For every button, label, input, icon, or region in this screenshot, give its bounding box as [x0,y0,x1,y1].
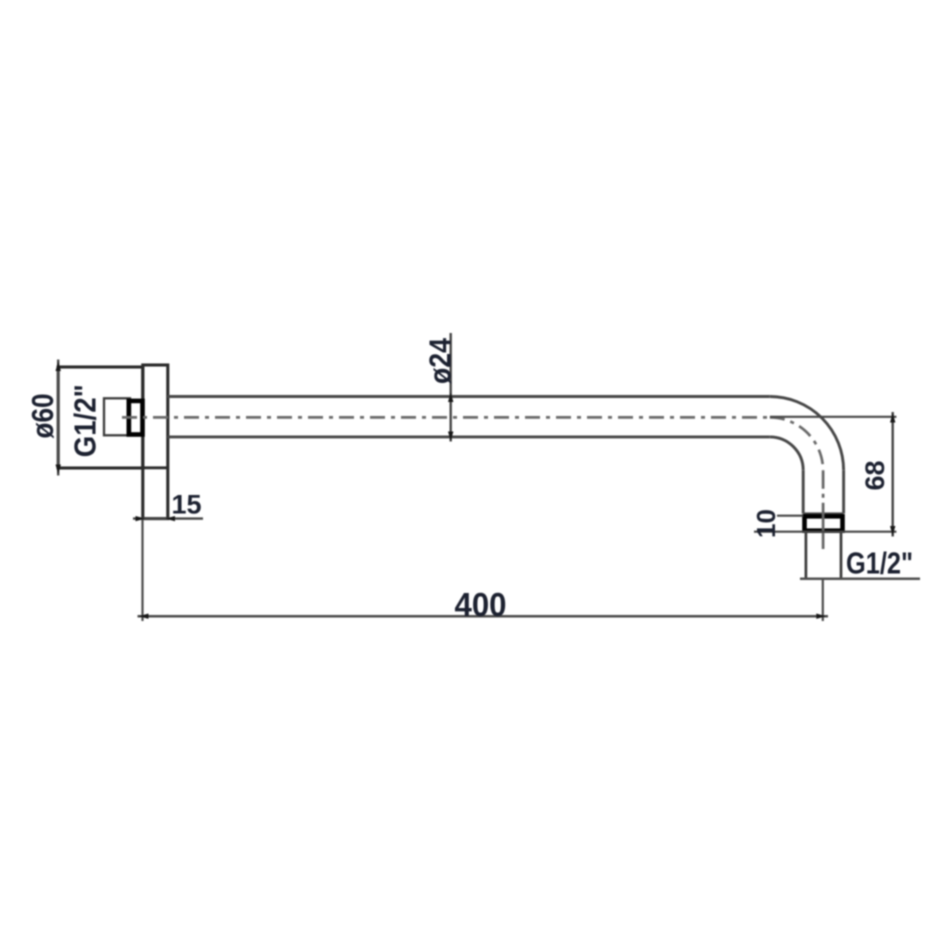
svg-text:G1/2": G1/2" [846,546,913,581]
svg-text:15: 15 [172,490,202,520]
svg-text:ø24: ø24 [423,337,458,384]
svg-text:68: 68 [860,460,890,490]
svg-text:ø60: ø60 [25,394,60,439]
svg-text:G1/2": G1/2" [68,384,103,457]
svg-text:10: 10 [751,509,781,538]
svg-text:400: 400 [455,586,507,623]
